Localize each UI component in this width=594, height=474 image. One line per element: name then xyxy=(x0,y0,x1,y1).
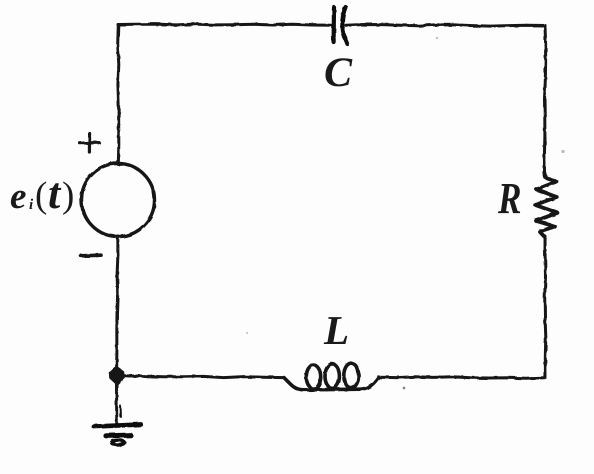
voltage source e_i(t) xyxy=(82,164,155,237)
minus sign xyxy=(81,253,101,257)
resistor R xyxy=(535,173,557,238)
wire top-left xyxy=(118,24,331,25)
wire top-right xyxy=(346,25,545,27)
plus sign xyxy=(80,134,99,153)
wire left upper xyxy=(118,25,119,165)
label e_i(t) xyxy=(0,0,1,1)
capacitor C xyxy=(334,7,347,44)
wire right lower xyxy=(545,236,546,378)
junction node xyxy=(110,367,125,385)
ground xyxy=(94,406,141,445)
wire bottom-left xyxy=(123,376,284,378)
label L xyxy=(324,310,349,351)
wire ground stub xyxy=(115,382,118,425)
inductor L xyxy=(284,363,379,390)
label C xyxy=(324,52,352,94)
wire left lower xyxy=(117,236,118,370)
label R xyxy=(498,177,521,221)
faint specks xyxy=(561,150,564,153)
wire bottom-right xyxy=(379,377,545,379)
wire right upper xyxy=(544,26,545,174)
